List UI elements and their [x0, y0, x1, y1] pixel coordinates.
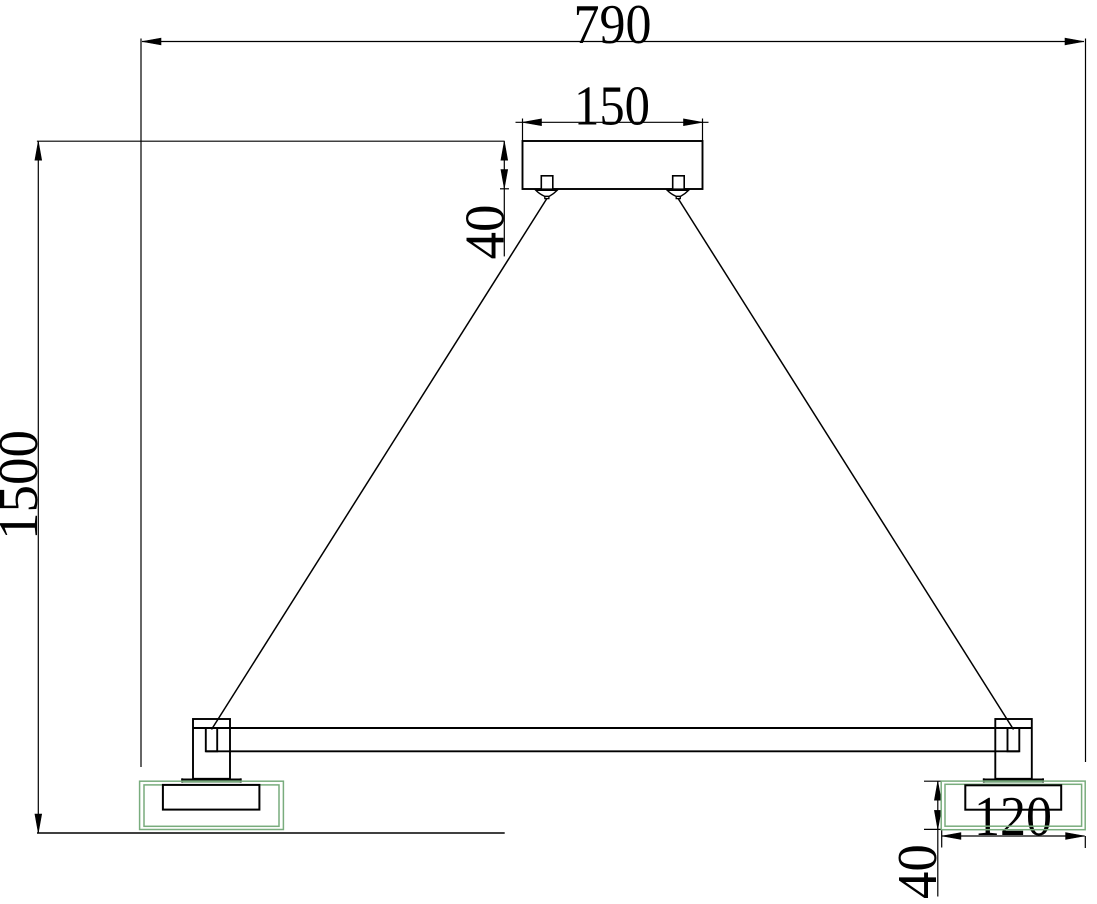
bar bottom edge — [206, 750, 1020, 752]
arrow right 150 — [684, 119, 703, 126]
arrow down 40 bottom — [934, 810, 941, 829]
left flange end ticks — [181, 778, 183, 782]
arrow left 150 — [523, 119, 542, 126]
svg-text:40: 40 — [454, 205, 516, 260]
right lamp black box — [965, 785, 1061, 809]
arrow right 120 — [1066, 833, 1085, 840]
right cable gripper block — [673, 176, 685, 189]
extension line right of 790 — [1085, 39, 1087, 763]
dim line 790 — [142, 41, 1084, 43]
right inner block — [1008, 728, 1020, 751]
left flange fill — [181, 779, 241, 783]
right green outer box — [941, 781, 1085, 830]
left gripper cone — [536, 190, 557, 196]
extension line top of 1500 — [37, 140, 505, 142]
extension line right of 120 — [1084, 836, 1086, 848]
left stem — [193, 719, 230, 779]
dim line 40 top — [503, 141, 505, 256]
svg-text:1500: 1500 — [0, 430, 50, 540]
left gripper neck — [545, 196, 549, 198]
extension line left of 790 — [140, 39, 142, 768]
right flange top — [983, 778, 1044, 780]
svg-text:150: 150 — [574, 76, 650, 138]
right stem — [995, 719, 1032, 779]
left green outer box — [140, 781, 284, 829]
left inner block — [206, 728, 217, 751]
dim line 150 — [516, 121, 709, 123]
canopy box — [523, 141, 703, 189]
dim line 120 — [942, 835, 1085, 837]
tick top 40 bottom — [924, 780, 942, 782]
right gripper cone — [667, 190, 688, 196]
svg-text:120: 120 — [974, 786, 1052, 848]
arrow right 790 — [1065, 38, 1084, 45]
extension line left of 150 — [522, 119, 524, 142]
right flange fill — [983, 779, 1044, 783]
dim line 40 bottom — [937, 781, 939, 896]
svg-text:790: 790 — [574, 0, 652, 56]
arrow up 1500 — [35, 141, 42, 160]
arrow down 1500 — [35, 814, 42, 833]
left cable gripper block — [541, 176, 553, 189]
right flange end ticks — [983, 778, 985, 782]
tick bottom 40 bottom — [924, 828, 942, 830]
arrow left 790 — [142, 38, 161, 45]
arrow down 40 top — [501, 170, 508, 189]
tick 40 top — [500, 188, 509, 190]
arrow up 40 top — [501, 141, 508, 160]
right gripper neck — [676, 196, 680, 198]
left flange top — [181, 778, 241, 780]
right green inner box — [945, 784, 1082, 826]
arrow up 40 bottom — [934, 781, 941, 800]
extension line left of 120 — [941, 830, 943, 848]
bar top edge — [193, 727, 1032, 729]
arrow left 120 — [942, 833, 961, 840]
right cable — [678, 199, 1013, 730]
svg-text:40: 40 — [887, 844, 949, 899]
left green inner box — [144, 785, 279, 826]
extension line bottom of 1500 — [37, 832, 505, 834]
extension line right of 150 — [702, 119, 704, 142]
left cable — [212, 199, 547, 730]
dim line 1500 — [37, 141, 39, 833]
left lamp black box — [163, 785, 260, 810]
